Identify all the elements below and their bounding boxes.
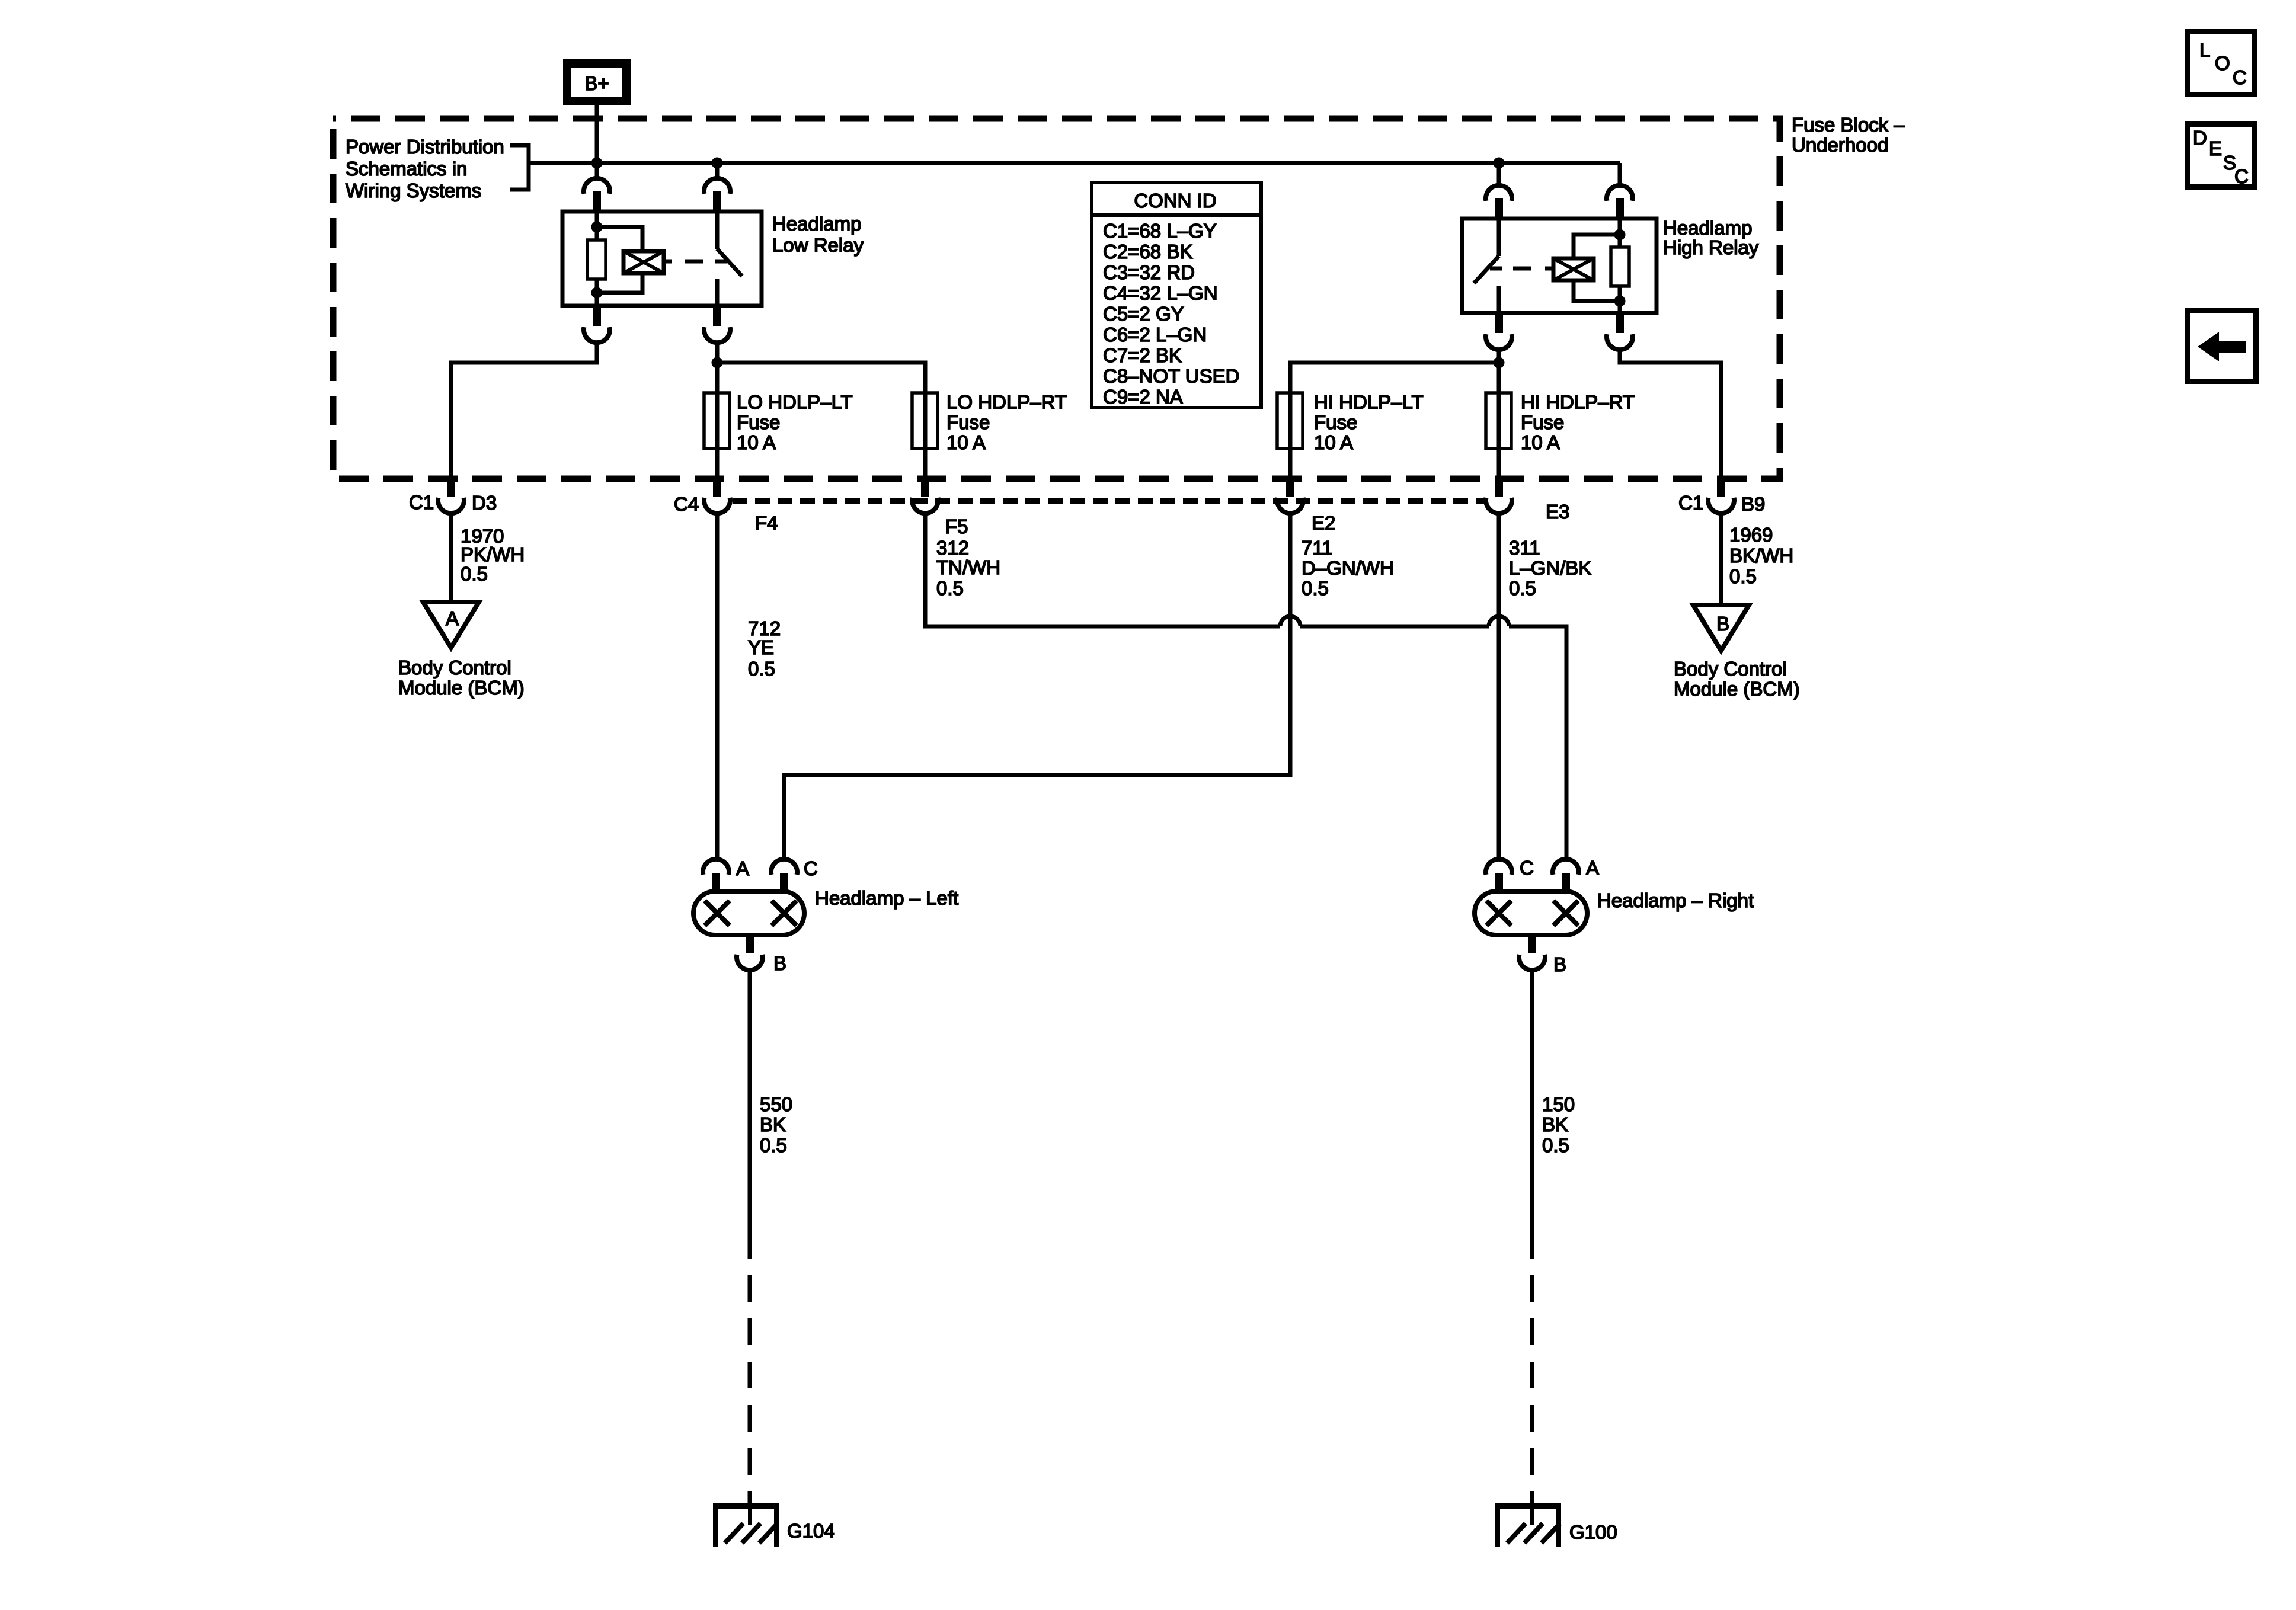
svg-text:0.5: 0.5 [1509,577,1536,599]
wire fuse E2 to connector E2 [1288,449,1293,478]
svg-text:G104: G104 [787,1520,835,1542]
svg-text:L–GN/BK: L–GN/BK [1509,557,1591,579]
svg-text:D: D [2193,127,2207,149]
high relay switch output pin 87 [1486,313,1512,350]
wire 550 BK dashed section to ground [748,1275,752,1503]
svg-text:Low Relay: Low Relay [772,234,864,256]
svg-text:0.5: 0.5 [1542,1134,1569,1156]
wire 550 BK solid section [748,970,752,1259]
svg-text:F4: F4 [755,512,778,534]
harness dotted connector row C2 [733,498,1485,504]
wire high relay coil output down and right [1620,350,1721,478]
connector cavity low relay switch pin 30 [704,178,730,212]
svg-text:B+: B+ [584,72,609,94]
svg-text:HI HDLP–RT: HI HDLP–RT [1521,391,1635,413]
svg-text:C3=32 RD: C3=32 RD [1103,261,1195,283]
wire fuse E3 to connector E3 [1497,449,1501,478]
bus wire B+ feed [529,161,1620,165]
label wire 550 BK 0.5 [760,1093,792,1156]
label Fuse Block - Underhood [1792,114,1905,156]
junction dot low relay coil bottom [591,287,603,299]
wire 311 L-GN/BK connector E3 to headlamp right C [1497,513,1501,860]
label wire 311 L-GN/BK 0.5 [1509,537,1591,599]
label Headlamp Low Relay [772,213,864,256]
svg-text:10 A: 10 A [737,431,776,453]
CONN ID table [1092,183,1261,408]
wire 150 BK dashed section to ground [1530,1275,1534,1503]
wire high relay switch output to fuse E3 [1497,350,1501,393]
svg-text:C7=2 BK: C7=2 BK [1103,344,1182,366]
coil actuation dash high relay [1513,267,1531,271]
wire 1969 to BCM B [1719,513,1723,605]
junction dot low relay coil top [591,222,603,233]
low relay switch blade [717,249,742,276]
svg-text:C: C [1520,857,1534,879]
svg-text:0.5: 0.5 [760,1134,787,1156]
off-page triangle A to BCM [423,602,479,648]
label wire 711 D-GN/WH 0.5 [1302,537,1394,599]
svg-text:C2=68 BK: C2=68 BK [1103,241,1192,263]
headlamp right connector pin A [1553,859,1579,892]
svg-text:550: 550 [760,1093,792,1115]
coil actuation stub low relay [664,260,672,264]
svg-text:Headlamp: Headlamp [1663,217,1752,239]
wire low relay coil output down and left [451,343,597,478]
label wire 1969 BK/WH 0.5 [1729,524,1793,587]
wire low relay switch output to fuse F4 [715,343,720,393]
label LO HDLP-RT Fuse 10 A [946,391,1067,453]
svg-text:PK/WH: PK/WH [461,543,525,565]
svg-text:C: C [2234,165,2249,187]
high relay switch bottom contact wire [1497,286,1501,313]
headlamp left bulb capsule [693,891,804,935]
wire bus to low relay coil pin [595,163,599,180]
headlamp left pin B [737,935,763,970]
relay K2 Headlamp High Relay box [1462,219,1657,313]
svg-text:C: C [2233,66,2247,88]
wire bus to high relay coil feed [1618,163,1622,187]
B+ power terminal box [567,63,626,101]
wire B+ to bus [595,105,599,165]
svg-text:10 A: 10 A [1521,431,1560,453]
svg-text:E3: E3 [1546,501,1569,523]
label Body Control Module (BCM) right [1674,658,1800,700]
coil actuation tick at blade high relay [1490,267,1502,271]
svg-text:0.5: 0.5 [1729,565,1757,587]
label Headlamp High Relay [1663,217,1759,258]
svg-text:0.5: 0.5 [461,563,488,585]
coil solenoid low relay [623,251,664,273]
headlamp left connector pin A [703,859,729,892]
wire 312 TN/WH connector F5 to headlamp right A [925,513,1566,860]
svg-text:0.5: 0.5 [936,577,964,599]
wire bus to low relay switch pin [715,163,720,180]
wire 711 D-GN/WH connector E2 to headlamp left C [784,513,1290,860]
svg-text:Underhood: Underhood [1792,134,1888,156]
svg-text:10 A: 10 A [1314,431,1353,453]
svg-text:Module (BCM): Module (BCM) [1674,678,1800,700]
svg-text:C4: C4 [674,493,699,515]
svg-text:Headlamp: Headlamp [772,213,861,235]
coil actuation dash low relay [685,260,703,264]
svg-text:C6=2 L–GN: C6=2 L–GN [1103,324,1207,345]
fuse block underhood dashed border [333,119,1780,479]
junction dot bus to high relay switch [1494,158,1505,169]
svg-text:0.5: 0.5 [1302,577,1329,599]
high relay coil output pin 85 [1607,313,1633,350]
svg-text:BK: BK [760,1113,786,1135]
svg-text:1969: 1969 [1729,524,1773,546]
svg-text:C1: C1 [1678,492,1703,514]
svg-text:150: 150 [1542,1093,1575,1115]
back arrow box [2188,311,2256,382]
wire fuse feed to F5 [717,363,925,393]
svg-text:A: A [446,607,459,629]
svg-text:Fuse Block –: Fuse Block – [1792,114,1905,136]
svg-text:CONN ID: CONN ID [1134,190,1216,212]
svg-text:711: 711 [1302,537,1333,559]
label Power Distribution Schematics in Wiring Systems [346,136,504,201]
svg-text:LO HDLP–RT: LO HDLP–RT [946,391,1067,413]
svg-text:C1=68 L–GY: C1=68 L–GY [1103,220,1217,242]
connector cavity low relay coil pin 86 [584,178,610,212]
connector cavity high relay coil pin 86 [1607,185,1633,219]
svg-text:Wiring Systems: Wiring Systems [346,180,481,201]
low relay coil branch wire [595,212,599,241]
connector C1 D3 [438,476,464,513]
svg-text:C1: C1 [409,491,434,513]
label wire 312 TN/WH 0.5 [936,537,1000,599]
connector E3 [1486,476,1512,513]
wire 1970 to BCM A [449,513,453,602]
junction dot high relay coil bottom [1614,296,1626,307]
wire bus to high relay switch feed [1497,163,1501,187]
svg-text:Fuse: Fuse [1521,411,1564,433]
svg-text:Body Control: Body Control [1674,658,1787,680]
high relay switch blade [1474,256,1499,283]
connector F5 [912,476,938,513]
legend box LOC [2188,32,2255,95]
label wire 1970 PK/WH 0.5 [461,525,525,585]
svg-text:Headlamp – Right: Headlamp – Right [1597,889,1754,911]
wire hop over E2 wire [1280,616,1300,626]
legend box DESC [2188,124,2255,188]
label wire 150 BK 0.5 [1542,1093,1575,1156]
svg-text:C9=2 NA: C9=2 NA [1103,386,1183,408]
wire resistor to coil bottom node high relay [1618,286,1622,313]
svg-text:YE: YE [748,636,774,658]
wire coil loop bottom [597,271,642,293]
svg-text:C5=2 GY: C5=2 GY [1103,303,1184,325]
svg-text:TN/WH: TN/WH [936,556,1000,578]
low relay coil output pin 85 [584,306,610,343]
svg-text:BK: BK [1542,1113,1568,1135]
svg-text:312: 312 [936,537,969,559]
svg-text:Fuse: Fuse [1314,411,1357,433]
wire resistor to coil bottom node [595,279,599,306]
wire fuse F5 to connector F5 [923,449,928,478]
resistor high relay [1611,247,1629,286]
svg-text:311: 311 [1509,537,1540,559]
junction dot bus to low relay switch [712,158,723,169]
svg-text:BK/WH: BK/WH [1729,545,1793,566]
bracket from power distribution label to bus [510,145,529,190]
wire coil loop top [597,227,642,253]
svg-text:B: B [1716,613,1729,635]
svg-text:0.5: 0.5 [748,658,775,680]
ground G104 [713,1506,779,1547]
relay K1 Headlamp Low Relay box [562,212,762,306]
junction dot B+ at bus [591,158,603,169]
wire 150 BK solid section [1530,970,1534,1259]
svg-text:B9: B9 [1741,493,1765,515]
high relay coil branch wire [1618,219,1622,248]
fuse LO HDLP-LT [704,393,730,449]
svg-text:D–GN/WH: D–GN/WH [1302,557,1394,579]
low relay switch output pin 87 [704,306,730,343]
connector C4 F4 [704,476,730,513]
headlamp right pin B [1519,935,1545,970]
low relay switch top contact wire [715,212,720,249]
label LO HDLP-LT Fuse 10 A [737,391,853,453]
label HI HDLP-RT Fuse 10 A [1521,391,1635,453]
svg-text:O: O [2215,52,2230,74]
coil actuation stub high relay [1545,267,1553,271]
headlamp left connector pin C [771,859,797,892]
connector C1 B9 [1708,476,1734,513]
wire fuse F4 to connector C4 [715,449,720,478]
junction dot high relay coil top [1614,229,1626,241]
svg-text:B: B [773,952,786,974]
wire coil loop top high relay [1574,235,1620,260]
wire fuse feed to E2 [1290,363,1499,393]
wire 712 YE connector C4 to headlamp left A [715,513,720,860]
headlamp right connector pin C [1486,859,1512,892]
junction dot fuse feed F4/F5 [712,357,723,369]
ground G100 [1495,1506,1561,1547]
svg-text:Schematics in: Schematics in [346,158,467,180]
coil solenoid high relay [1553,258,1594,280]
svg-text:C8–NOT USED: C8–NOT USED [1103,365,1239,387]
svg-text:E2: E2 [1312,512,1335,534]
svg-text:Module (BCM): Module (BCM) [398,677,525,699]
svg-text:Fuse: Fuse [737,411,780,433]
svg-text:C: C [804,857,818,879]
svg-text:F5: F5 [945,516,968,537]
svg-text:A: A [1586,857,1599,879]
headlamp right bulb capsule [1475,891,1587,935]
label HI HDLP-LT Fuse 10 A [1314,391,1424,453]
svg-text:C4=32 L–GN: C4=32 L–GN [1103,282,1218,304]
connector cavity high relay switch pin 30 [1486,185,1512,219]
high relay switch top contact wire [1497,219,1501,256]
fuse HI HDLP-RT [1486,393,1511,449]
svg-text:E: E [2209,137,2222,159]
label Body Control Module (BCM) left [398,657,525,699]
svg-text:Body Control: Body Control [398,657,511,678]
low relay switch bottom contact wire [715,279,720,306]
svg-text:A: A [736,857,749,879]
wire hop over E3 wire [1489,616,1509,626]
svg-text:Fuse: Fuse [946,411,990,433]
svg-text:High Relay: High Relay [1663,236,1759,258]
svg-text:Power Distribution: Power Distribution [346,136,504,158]
coil actuation tick at blade low relay [715,260,727,264]
junction dot fuse feed E2/E3 [1494,357,1505,369]
svg-text:10 A: 10 A [946,431,986,453]
wire coil loop bottom high relay [1574,279,1620,301]
off-page triangle B to BCM [1693,605,1749,651]
svg-text:D3: D3 [472,492,497,514]
svg-text:L: L [2199,39,2210,61]
fuse LO HDLP-RT [912,393,938,449]
svg-text:HI HDLP–LT: HI HDLP–LT [1314,391,1424,413]
label wire 712 YE 0.5 [748,617,781,680]
connector E2 [1277,476,1303,513]
svg-text:G100: G100 [1569,1521,1617,1543]
resistor low relay [587,240,606,279]
svg-text:LO HDLP–LT: LO HDLP–LT [737,391,853,413]
fuse HI HDLP-LT [1277,393,1303,449]
svg-text:B: B [1553,953,1566,975]
svg-text:Headlamp – Left: Headlamp – Left [815,887,958,909]
